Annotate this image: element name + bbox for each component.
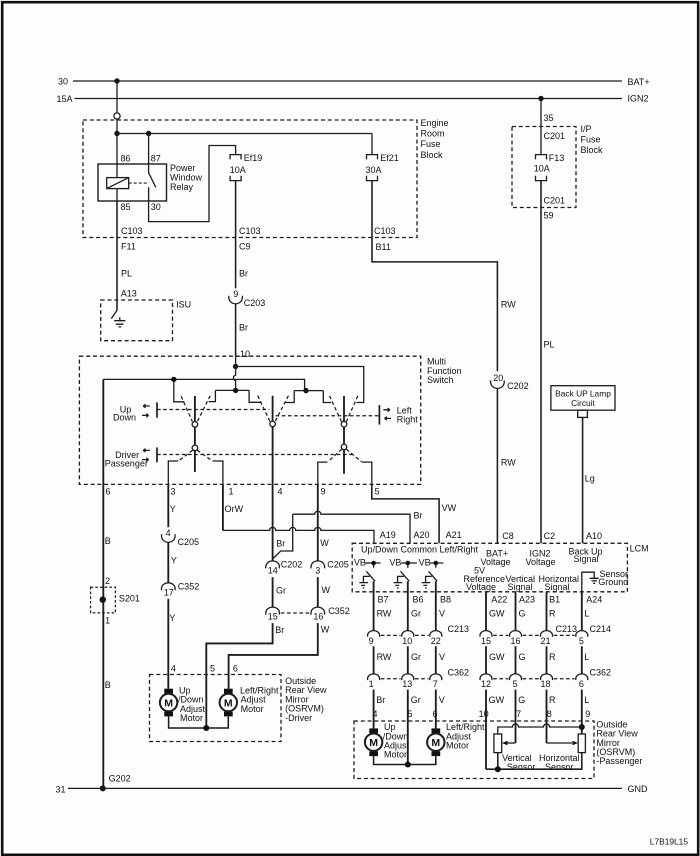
fuse Ef21 30A: [366, 153, 399, 181]
wire G C362 to vertical sensor wiper: [516, 690, 526, 743]
motor driver left/right: [220, 685, 279, 716]
svg-text:G: G: [519, 652, 526, 662]
wire ring to bus: [116, 119, 118, 133]
svg-text:GW: GW: [489, 608, 505, 618]
svg-text:86: 86: [121, 153, 131, 163]
fuse F13 10A: [534, 153, 565, 181]
junction on IGN2 line: [538, 96, 543, 101]
svg-text:Gr: Gr: [411, 608, 421, 618]
svg-text:3: 3: [171, 487, 176, 497]
junction bus/relay86: [114, 131, 119, 136]
wire Lg backup lamp to LCM A10: [583, 417, 595, 543]
svg-text:C103: C103: [121, 226, 143, 236]
svg-text:Br: Br: [414, 511, 423, 521]
svg-text:W: W: [322, 585, 331, 595]
svg-text:G202: G202: [109, 774, 131, 784]
wire Gr C362 to common: [408, 690, 421, 765]
gang3 lower diagonals: [328, 449, 362, 462]
arrow wiper into vertical sensor: [506, 742, 516, 744]
gang1 contact lower: [192, 445, 198, 451]
wire bus inside fuse block: [117, 133, 372, 135]
svg-text:3: 3: [315, 566, 320, 576]
svg-text:21: 21: [541, 636, 551, 646]
Up/Down terminal: [113, 402, 157, 422]
wire L C213-C362: [582, 646, 590, 674]
wire bus to relay pin 86: [116, 134, 118, 165]
svg-text:30A: 30A: [366, 165, 382, 175]
LCM VB switch unit 2: [389, 558, 417, 589]
connector C103 C9 labels: [239, 226, 261, 252]
connector C205 pin 3: [311, 560, 349, 576]
svg-text:C352: C352: [178, 582, 200, 592]
connector C213 row: [368, 624, 611, 646]
wire PL relay85 to ISU A13: [117, 238, 137, 311]
sensor horizontal: [539, 734, 585, 772]
svg-text:A23: A23: [519, 595, 535, 605]
svg-text:Passenger: Passenger: [105, 458, 148, 468]
svg-text:C2: C2: [544, 531, 556, 541]
Left/Right linkage dashed: [276, 415, 380, 417]
svg-text:Voltage: Voltage: [526, 557, 556, 567]
svg-text:10: 10: [479, 709, 489, 719]
svg-text:Y: Y: [170, 504, 176, 514]
svg-text:9: 9: [233, 289, 238, 299]
svg-text:R: R: [549, 695, 556, 705]
svg-text:5: 5: [210, 664, 215, 674]
connector C103 F11 labels: [121, 226, 143, 252]
svg-text:Motor: Motor: [241, 704, 264, 714]
wire Y C205 to C352: [168, 542, 177, 583]
wire passenger motors common: [374, 756, 436, 764]
svg-text:C205: C205: [327, 560, 349, 570]
dashed link C352 15-16: [281, 612, 311, 614]
svg-text:10: 10: [240, 349, 250, 359]
svg-text:F11: F11: [121, 242, 136, 252]
svg-text:15: 15: [268, 612, 278, 622]
svg-text:9: 9: [321, 487, 326, 497]
wire Y C352 to driver motor pin 4: [168, 599, 176, 689]
svg-text:15A: 15A: [57, 94, 73, 104]
connector C352 pin 16: [311, 606, 350, 622]
connector C352 pin 17: [162, 582, 200, 598]
wire driver motors common: [169, 716, 229, 728]
sensor vertical: [494, 734, 536, 772]
wire GW C213-C362: [486, 646, 505, 674]
svg-text:Signal: Signal: [545, 582, 570, 592]
gang1 left seat: [174, 379, 185, 401]
LCM box: [352, 543, 648, 592]
wire BAT+ drop to fuse block: [116, 83, 118, 112]
wire W C205 to C352: [318, 577, 331, 607]
svg-text:RW: RW: [377, 608, 392, 618]
gang1 bottom seat pin1: [213, 461, 223, 484]
svg-text:6: 6: [106, 487, 111, 497]
svg-text:G: G: [519, 608, 526, 618]
wire L to vertical sensor top with hops: [498, 724, 582, 734]
MFS pin labels: [106, 487, 380, 497]
svg-text:W: W: [321, 625, 330, 635]
svg-text:7: 7: [516, 709, 521, 719]
svg-text:L7B19L15: L7B19L15: [650, 837, 689, 847]
svg-text:Motor: Motor: [446, 741, 469, 751]
svg-text:30: 30: [58, 77, 68, 87]
svg-text:M: M: [164, 697, 173, 709]
gang3 left seat: [323, 391, 331, 403]
svg-text:16: 16: [511, 636, 521, 646]
wire Br C352 to driver motor pin 5: [206, 623, 284, 728]
connector C103 B11 labels: [374, 226, 396, 252]
wire Br pin4 to C202: [273, 484, 286, 561]
wire relay 85 to C103 F11: [116, 201, 118, 238]
junction pin10 feed: [233, 364, 238, 369]
dashed links C213 row: [381, 634, 575, 636]
gang3 pole: [343, 396, 345, 474]
svg-text:R: R: [549, 652, 556, 662]
connector C205 pin 4: [162, 528, 200, 547]
junction gang1 left seat: [171, 377, 176, 382]
svg-text:RW: RW: [501, 299, 516, 309]
wire A23 column: [516, 592, 526, 631]
arrow wiper into horizontal sensor: [547, 742, 573, 744]
svg-text:Signal: Signal: [574, 554, 599, 564]
wire W pin9 to C205: [318, 484, 330, 561]
wire Ef21 to C103 B11: [371, 181, 373, 238]
svg-text:15: 15: [481, 636, 491, 646]
svg-text:A24: A24: [586, 595, 602, 605]
svg-text:Ef21: Ef21: [380, 153, 399, 163]
svg-text:Br: Br: [239, 322, 248, 332]
svg-text:C8: C8: [502, 531, 514, 541]
wire IGN2 to F13: [540, 99, 542, 155]
wire bus to relay pin 87: [148, 134, 150, 165]
wire GW C362 to sensors: [479, 690, 505, 770]
svg-text:4: 4: [171, 664, 176, 674]
svg-text:L: L: [584, 695, 589, 705]
ground G202: [100, 774, 131, 792]
motor passenger up/down: [365, 722, 410, 760]
svg-text:Engine: Engine: [421, 118, 449, 128]
svg-text:C352: C352: [328, 606, 350, 616]
svg-text:PL: PL: [121, 269, 132, 279]
svg-text:I/P: I/P: [581, 124, 592, 134]
LCM sensor ground: [582, 569, 629, 592]
wire B7 column: [374, 581, 392, 631]
svg-text:Down: Down: [113, 413, 136, 423]
svg-text:LCM: LCM: [630, 544, 649, 554]
svg-text:V: V: [439, 652, 445, 662]
gang1 pole: [194, 396, 196, 472]
Passenger OSRVM box: [354, 719, 642, 778]
LCM pin labels top: [502, 531, 602, 541]
svg-text:5: 5: [513, 679, 518, 689]
svg-text:6: 6: [233, 664, 238, 674]
wire pin6 crossbar: [103, 379, 304, 390]
svg-text:Br: Br: [239, 269, 248, 279]
svg-text:Block: Block: [581, 145, 604, 155]
wire RW C202 to LCM C8: [497, 388, 516, 543]
gang1 right seat: [209, 390, 216, 401]
svg-text:B1: B1: [549, 595, 560, 605]
motor passenger left/right: [427, 722, 485, 756]
svg-text:C362: C362: [590, 668, 612, 678]
connector C202 pin 20: [491, 373, 529, 391]
wire V C213-C362: [436, 646, 445, 674]
svg-text:Up/Down Common Left/Right: Up/Down Common Left/Right: [361, 544, 479, 554]
svg-text:B8: B8: [440, 595, 451, 605]
gang2 right seat: [285, 391, 295, 403]
svg-text:W: W: [320, 538, 329, 548]
gang1 bottom seat pin3: [168, 461, 178, 484]
svg-text:C202: C202: [281, 560, 303, 570]
svg-text:A10: A10: [586, 531, 602, 541]
svg-text:Gr: Gr: [411, 652, 421, 662]
wire pin10 down with hop over crossbar: [233, 367, 235, 391]
svg-text:B7: B7: [378, 595, 389, 605]
svg-text:Circuit: Circuit: [571, 398, 595, 408]
svg-text:C213: C213: [448, 624, 470, 634]
svg-text:L: L: [584, 608, 589, 618]
svg-text:4: 4: [166, 528, 171, 538]
svg-text:5: 5: [408, 709, 413, 719]
svg-text:Sensor: Sensor: [507, 762, 536, 772]
svg-text:VB: VB: [354, 558, 366, 568]
svg-text:5: 5: [375, 487, 380, 497]
svg-text:35: 35: [544, 113, 554, 123]
svg-text:GW: GW: [489, 652, 505, 662]
svg-text:Signal: Signal: [508, 582, 533, 592]
svg-text:ISU: ISU: [176, 300, 191, 310]
fuse Ef19 10A: [230, 153, 263, 181]
svg-text:-Passenger: -Passenger: [596, 756, 642, 766]
svg-text:2: 2: [105, 576, 110, 586]
svg-text:V: V: [439, 608, 445, 618]
gang3 linkage diagonals: [330, 396, 358, 422]
wire A22 column: [486, 592, 505, 631]
svg-text:VW: VW: [442, 503, 457, 513]
svg-text:6: 6: [579, 679, 584, 689]
svg-text:5: 5: [579, 636, 584, 646]
svg-text:87: 87: [151, 153, 161, 163]
svg-text:M: M: [369, 737, 378, 749]
relay linkage dashed: [129, 182, 148, 184]
wire Br C203 to MFS pin 10: [236, 304, 250, 359]
relay coil: [107, 164, 129, 201]
wire R C213-C362: [547, 646, 557, 674]
svg-text:C103: C103: [239, 226, 261, 236]
svg-text:20: 20: [493, 373, 503, 383]
svg-text:L: L: [584, 652, 589, 662]
wire center bar gang1-gang2: [215, 389, 249, 391]
svg-text:Motor: Motor: [180, 713, 203, 723]
svg-text:Gr: Gr: [411, 695, 421, 705]
svg-text:Br: Br: [376, 695, 385, 705]
svg-text:30: 30: [151, 202, 161, 212]
svg-text:A19: A19: [380, 530, 396, 540]
motor driver up/down: [160, 685, 206, 723]
Driver OSRVM box: [150, 675, 327, 742]
wire RW B11 to C202 20: [372, 238, 516, 372]
wire V C362 to motor: [433, 690, 445, 729]
svg-text:Power: Power: [170, 163, 196, 173]
svg-text:Br: Br: [276, 539, 285, 549]
svg-text:Ground: Ground: [598, 577, 628, 587]
svg-text:Voltage: Voltage: [466, 582, 496, 592]
wire sensors bottom bus: [486, 753, 582, 770]
svg-text:A20: A20: [414, 530, 430, 540]
svg-text:RW: RW: [501, 457, 516, 467]
ISU box: [101, 300, 191, 341]
svg-text:Back UP Lamp: Back UP Lamp: [555, 388, 611, 398]
svg-text:VB: VB: [389, 558, 401, 568]
junction passenger common: [405, 762, 411, 768]
svg-text:GND: GND: [628, 784, 649, 794]
svg-text:Gr: Gr: [276, 585, 286, 595]
junction on BAT+ line: [114, 78, 119, 83]
dashed links C362 row: [381, 678, 575, 680]
svg-text:14: 14: [268, 566, 278, 576]
svg-text:C362: C362: [448, 668, 470, 678]
junction center bar: [233, 388, 238, 393]
svg-text:1: 1: [369, 679, 374, 689]
svg-text:C203: C203: [244, 298, 266, 308]
relay switch blade: [149, 164, 156, 201]
svg-text:C214: C214: [590, 624, 612, 634]
svg-text:4: 4: [373, 709, 378, 719]
wire feed to gang3 right seat: [236, 367, 364, 403]
svg-text:C9: C9: [239, 242, 251, 252]
svg-text:59: 59: [544, 210, 554, 220]
svg-text:Br: Br: [275, 625, 284, 635]
svg-text:B: B: [105, 536, 111, 546]
gang1 contact upper: [192, 422, 198, 428]
Left/Right terminal: [379, 405, 418, 425]
wire Gr C202 to C352: [273, 577, 286, 607]
wire W C352 to driver motor pin 6: [229, 623, 330, 689]
Driver/Passenger linkage dashed: [157, 454, 354, 456]
svg-text:G: G: [518, 695, 525, 705]
svg-text:B11: B11: [376, 242, 391, 252]
node BAT+ power line 30: [58, 77, 650, 88]
svg-text:VB: VB: [419, 558, 431, 568]
wire B pin6 to G202: [103, 379, 111, 788]
svg-text:10A: 10A: [230, 165, 246, 175]
svg-text:13: 13: [402, 679, 412, 689]
svg-text:Motor: Motor: [384, 750, 407, 760]
wire OrW pin1 to LCM A19: [223, 484, 396, 543]
svg-text:1: 1: [229, 487, 234, 497]
wire R C362 to horizontal sensor wiper: [547, 690, 557, 743]
svg-text:GW: GW: [489, 695, 505, 705]
svg-text:B6: B6: [413, 595, 424, 605]
svg-text:PL: PL: [544, 339, 555, 349]
svg-text:V: V: [439, 695, 445, 705]
svg-text:10A: 10A: [534, 163, 550, 173]
node IGN2 power line 15A: [57, 94, 649, 105]
svg-text:C205: C205: [178, 537, 200, 547]
wire VW pin5 to LCM A21: [372, 484, 462, 543]
svg-text:9: 9: [369, 636, 374, 646]
junction gang2-gang3 bar: [303, 388, 308, 393]
svg-text:9: 9: [585, 709, 590, 719]
Driver/Passenger terminal: [105, 447, 157, 468]
svg-text:Fuse: Fuse: [581, 135, 601, 145]
svg-text:Block: Block: [421, 150, 444, 160]
svg-text:Fuse: Fuse: [421, 139, 441, 149]
svg-text:31: 31: [56, 784, 66, 794]
LCM pin labels bottom: [378, 595, 603, 605]
svg-text:Window: Window: [170, 173, 203, 183]
svg-text:A13: A13: [121, 289, 137, 299]
svg-text:B: B: [105, 680, 111, 690]
wire gang2-gang3 bar: [294, 390, 323, 392]
connector C362 row: [368, 668, 611, 690]
svg-text:RW: RW: [377, 652, 392, 662]
ISU switch blade: [111, 310, 117, 318]
wire RW C213-C362: [374, 646, 392, 674]
wire pin10 entry to node: [235, 356, 237, 366]
svg-text:M: M: [224, 697, 233, 709]
wire relay 30 to fuse Ef19: [149, 146, 236, 222]
svg-text:R: R: [549, 608, 556, 618]
gang2 pole: [272, 396, 274, 485]
svg-text:C201: C201: [544, 196, 566, 206]
junction driver common: [203, 725, 209, 731]
wire B8 column: [436, 581, 445, 631]
wire Ef19 to C103 C9: [235, 181, 237, 238]
svg-text:6: 6: [433, 709, 438, 719]
svg-text:10: 10: [402, 636, 412, 646]
svg-text:C201: C201: [544, 131, 566, 141]
splice S201: [91, 587, 140, 613]
svg-text:22: 22: [431, 636, 441, 646]
svg-text:Right: Right: [397, 414, 419, 424]
svg-text:S201: S201: [119, 594, 140, 604]
wire Gr C213-C362: [408, 646, 421, 674]
wire Y pin3 to C205: [168, 484, 176, 527]
connector ring into fuse block: [114, 113, 120, 119]
LCM VB switch unit 3: [419, 558, 444, 589]
gang3 contact lower: [341, 444, 347, 450]
svg-text:7: 7: [433, 679, 438, 689]
junction bus/relay87: [146, 131, 151, 136]
svg-text:Room: Room: [421, 129, 445, 139]
svg-text:Switch: Switch: [427, 375, 454, 385]
svg-text:18: 18: [541, 679, 551, 689]
svg-text:M: M: [431, 737, 440, 749]
Back UP Lamp Circuit box: [551, 386, 615, 418]
svg-text:12: 12: [481, 679, 491, 689]
wire L C362 to sensors: [582, 690, 591, 734]
wire bus to fuse Ef21: [371, 134, 373, 155]
wire B6 column: [408, 581, 421, 631]
svg-text:IGN2: IGN2: [628, 94, 649, 104]
gang2 linkage diagonals: [258, 396, 289, 422]
gang3 bottom seat pin5: [362, 462, 372, 484]
wire PL F13 to LCM C2: [541, 181, 555, 544]
svg-text:1: 1: [105, 615, 110, 625]
svg-text:-Driver: -Driver: [285, 713, 312, 723]
I/P Fuse Block box: [512, 124, 603, 208]
svg-text:Y: Y: [171, 555, 177, 565]
gang2 left seat: [249, 390, 262, 402]
LCM net name row: [361, 544, 603, 591]
wire Br branch to LCM A20: [273, 511, 430, 560]
svg-text:OrW: OrW: [225, 504, 244, 514]
svg-text:C103: C103: [374, 226, 396, 236]
relay Power Window Relay: [98, 153, 203, 212]
svg-text:8: 8: [547, 709, 552, 719]
connector C203 pin 9: [229, 289, 266, 308]
